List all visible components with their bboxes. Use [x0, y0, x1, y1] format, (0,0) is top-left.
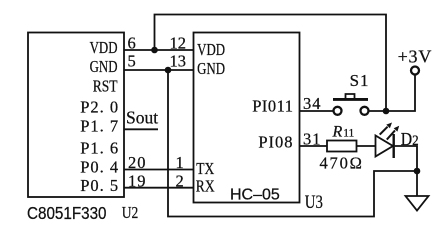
svg-text:31: 31	[303, 130, 322, 149]
U3 reference designator	[305, 191, 323, 212]
svg-text:13: 13	[170, 52, 187, 71]
wire RX: U2 pin19 to U3 pin2	[124, 187, 194, 189]
U3 pin label GND	[197, 61, 225, 79]
svg-text:R: R	[332, 123, 343, 140]
wire +3V top bus from VDD junction up over to right side	[155, 15, 387, 112]
svg-text:470Ω: 470Ω	[320, 153, 364, 172]
junction dot GND net	[165, 67, 172, 74]
U3 pin number 2	[176, 171, 184, 190]
svg-text:5: 5	[128, 52, 136, 71]
+3V terminal circle	[411, 67, 419, 75]
svg-text:12: 12	[170, 33, 187, 52]
wire R11 to LED D2 anode	[357, 145, 376, 147]
IC U2 box (C8051F330)	[28, 33, 124, 198]
LED D2 triangle	[376, 136, 394, 157]
svg-text:VDD: VDD	[90, 40, 118, 58]
wire TX: U2 pin20 to U3 pin1	[124, 169, 194, 171]
U2 pin number 6	[128, 33, 136, 52]
wire switch S1 to +3V	[369, 75, 416, 111]
switch S1 left contact	[334, 107, 342, 115]
junction dot S1/+3V bus	[383, 108, 390, 115]
wire PIO8 stub to R11	[300, 145, 328, 147]
U3 pin number 13	[170, 52, 187, 71]
U3 pin label TX	[196, 161, 214, 178]
U2 pin label P1.7	[80, 117, 119, 136]
U3 pin number 12	[170, 33, 187, 52]
svg-text:TX: TX	[196, 161, 214, 178]
svg-text:U2: U2	[122, 205, 139, 222]
LED reference D2	[401, 129, 419, 149]
switch S1 right contact	[361, 107, 369, 115]
svg-text:PI011: PI011	[252, 97, 293, 116]
U3 pin label VDD	[197, 41, 225, 59]
wire GND net: U2 pin5 to U3 pin13	[124, 69, 194, 71]
node label Sout	[126, 108, 158, 128]
U2 pin label GND	[90, 59, 118, 77]
U3 pin number 34	[303, 94, 322, 113]
U2 part name C8051F330	[27, 204, 107, 223]
svg-text:34: 34	[303, 94, 322, 113]
U3 part name HC-05	[230, 187, 280, 204]
svg-text:GND: GND	[197, 61, 225, 79]
svg-text:19: 19	[128, 171, 147, 190]
wire ground return: GND junction down, along bottom, up to LED cathode node	[168, 70, 417, 217]
wire PIO11 stub to switch S1	[300, 110, 334, 112]
U3 pin label PIO8	[258, 133, 293, 152]
wire VDD net: U2 pin6 to U3 pin12	[124, 49, 194, 51]
resistor R11 body	[327, 141, 357, 152]
switch reference S1	[350, 71, 370, 90]
wire ground node down to ground symbol	[416, 171, 418, 196]
svg-text:D2: D2	[401, 129, 419, 149]
U3 pin label RX	[196, 179, 215, 196]
svg-text:P0. 5: P0. 5	[80, 176, 119, 195]
U2 pin number 19	[128, 171, 147, 190]
svg-text:P1. 6: P1. 6	[80, 138, 119, 157]
LED D2 light arrow 1	[380, 123, 392, 135]
LED D2 light arrow 2	[387, 126, 399, 140]
junction dot VDD/+3V bus	[151, 47, 158, 54]
U2 reference designator	[122, 205, 139, 222]
U2 pin label P2.0	[80, 98, 119, 117]
svg-text:VDD: VDD	[197, 41, 225, 59]
svg-text:C8051F330: C8051F330	[27, 204, 107, 223]
wire Sout stub from U2 P1.7	[124, 128, 158, 130]
LED D2 cathode bar	[393, 134, 395, 158]
resistor reference R11	[332, 123, 355, 140]
svg-text:P2. 0: P2. 0	[80, 98, 119, 117]
svg-text:2: 2	[176, 171, 184, 190]
svg-text:20: 20	[128, 153, 147, 172]
svg-text:P0. 4: P0. 4	[80, 157, 119, 176]
svg-text:11: 11	[343, 128, 354, 140]
U2 pin number 20	[128, 153, 147, 172]
U3 pin number 31	[303, 130, 322, 149]
ground symbol	[406, 196, 429, 211]
U2 pin label RST	[93, 78, 118, 95]
U2 pin label VDD	[90, 40, 118, 58]
U3 pin label PIO11	[252, 97, 293, 116]
svg-text:P1. 7: P1. 7	[80, 117, 119, 136]
svg-text:HC–05: HC–05	[230, 187, 280, 204]
svg-text:S1: S1	[350, 71, 370, 90]
svg-text:U3: U3	[305, 191, 323, 212]
U2 pin number 5	[128, 52, 136, 71]
svg-text:PI08: PI08	[258, 133, 293, 152]
svg-text:1: 1	[176, 153, 184, 172]
resistor value 470 ohm	[320, 153, 364, 172]
U2 pin label P0.5	[80, 176, 119, 195]
junction dot LED cathode / ground	[414, 168, 421, 175]
wire LED cathode to ground node	[395, 146, 417, 171]
U2 pin label P1.6	[80, 138, 119, 157]
switch S1 actuator bar	[333, 94, 368, 99]
svg-text:6: 6	[128, 33, 136, 52]
svg-text:RST: RST	[93, 78, 118, 95]
IC U3 box (HC-05)	[194, 33, 300, 203]
svg-text:RX: RX	[196, 179, 215, 196]
svg-text:GND: GND	[90, 59, 118, 77]
U3 pin number 1	[176, 153, 184, 172]
svg-text:Sout: Sout	[126, 108, 158, 128]
U2 pin label P0.4	[80, 157, 119, 176]
power label +3V	[398, 47, 433, 67]
svg-text:+3V: +3V	[398, 47, 433, 67]
